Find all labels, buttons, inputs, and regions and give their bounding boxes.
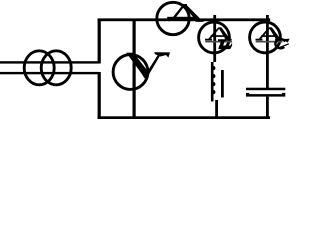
ammeter AL subscript L (218, 39, 232, 49)
wire: inductor branch (213, 15, 216, 62)
ammeter AC letter A (256, 27, 283, 42)
ammeter AC circle (250, 22, 281, 53)
wire: left bus upper segment (98, 19, 101, 64)
wire: capacitor branch lower (266, 97, 269, 119)
capacitor C bottom plate (246, 94, 285, 97)
wire: upper supply lead (0, 61, 99, 63)
wire: left bus lower segment (98, 72, 101, 119)
voltmeter V circle (113, 55, 148, 90)
ammeter AL circle (199, 22, 230, 53)
transformer T1 (24, 51, 71, 85)
ammeter AL letter A (205, 27, 232, 42)
inductor core line (221, 70, 224, 98)
ammeter letter A (166, 4, 204, 22)
inductor L coil (211, 62, 216, 102)
ammeter AC subscript C (275, 39, 288, 48)
ammeter A circle (157, 2, 189, 34)
wire: voltmeter branch (133, 19, 136, 120)
wire: inductor branch bottom (215, 100, 218, 119)
wire: bottom rail (98, 116, 270, 119)
capacitor C top plate (246, 88, 285, 91)
wire: top rail (98, 18, 271, 21)
wire: capacitor branch upper (266, 15, 269, 89)
wire: lower supply lead (0, 72, 99, 74)
voltmeter letter V (126, 52, 170, 78)
